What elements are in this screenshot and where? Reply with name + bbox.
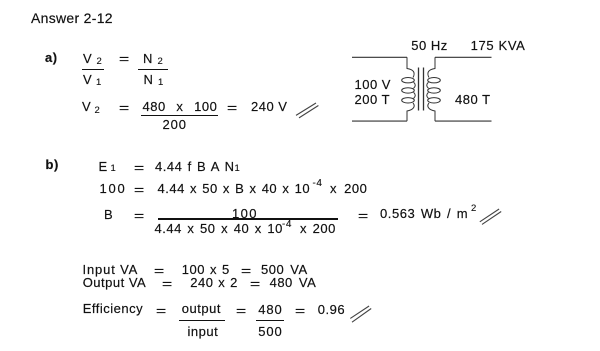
label a) xyxy=(45,51,58,64)
expression x 200 xyxy=(330,182,367,195)
node B xyxy=(104,208,113,221)
subscript 1 xyxy=(111,164,117,174)
tick mark after 0.563 Wb/m2 xyxy=(480,209,501,224)
value label 50 Hz xyxy=(411,39,447,52)
denominator 4.44 x 50 x 40 x 10 xyxy=(155,222,283,235)
wire bottom-left xyxy=(352,120,407,122)
node V2 numerator xyxy=(83,52,92,65)
equals sign xyxy=(119,52,130,65)
fraction bar N2/N1 xyxy=(138,69,168,70)
core line left xyxy=(418,68,420,111)
subscript 1 xyxy=(158,78,164,88)
tick mark after 240 V xyxy=(296,103,318,118)
subscript 2 xyxy=(158,57,164,67)
core line right xyxy=(423,68,425,111)
subscript 2 xyxy=(97,57,103,67)
fraction bar V2/V1 xyxy=(82,69,104,70)
fraction bar 480x100/200 xyxy=(141,115,218,117)
fraction bar big xyxy=(158,218,338,220)
secondary winding (480 T) xyxy=(427,57,441,121)
equals sign xyxy=(358,209,369,222)
node V1 denominator xyxy=(83,73,92,86)
V2 result row xyxy=(82,100,91,113)
result 0.563 Wb / m xyxy=(380,207,468,220)
fraction bar output/input xyxy=(179,320,225,322)
value label 480 T xyxy=(455,93,491,106)
node E1 xyxy=(99,160,108,173)
superscript -4 xyxy=(282,220,292,230)
result 240 V xyxy=(251,100,287,113)
expression 4.44 x 50 x B x 40 x 10 xyxy=(158,182,311,195)
equals sign xyxy=(119,101,130,114)
value 100 xyxy=(100,182,127,195)
Output VA row xyxy=(83,276,147,289)
Input VA row xyxy=(83,263,139,276)
equals sign xyxy=(227,101,238,114)
numerator 480 x 100 xyxy=(143,100,218,113)
superscript 2 xyxy=(471,204,477,214)
subscript 1 xyxy=(96,78,102,88)
Efficiency row xyxy=(83,302,143,315)
wire top-left xyxy=(352,56,407,58)
equals sign xyxy=(134,183,145,196)
numerator 100 xyxy=(232,207,258,220)
fraction bar 480/500 xyxy=(256,320,285,322)
value label 100 V xyxy=(355,78,391,91)
denominator 500 xyxy=(258,325,282,338)
denominator 200 xyxy=(163,118,187,131)
tick mark after 0.96 xyxy=(350,306,371,322)
formula 4.44 f B A N xyxy=(155,160,234,173)
equals sign xyxy=(134,161,145,174)
wire bottom-right xyxy=(435,120,492,122)
title "Answer 2-12" xyxy=(31,12,113,25)
label b) xyxy=(46,158,59,171)
denominator input xyxy=(188,325,219,338)
numerator 480 xyxy=(258,303,282,316)
primary winding (100 V / 200 T) xyxy=(402,57,416,121)
subscript 1 xyxy=(235,164,241,174)
wire top-right xyxy=(435,56,492,58)
superscript -4 xyxy=(313,179,323,189)
numerator output xyxy=(182,302,221,315)
denominator x 200 xyxy=(300,222,336,235)
value label 200 T xyxy=(355,93,391,106)
value label 175 KVA xyxy=(471,39,526,52)
node N2 numerator xyxy=(143,52,153,65)
equals sign xyxy=(134,209,145,222)
node N1 denominator xyxy=(144,73,154,86)
result 0.96 xyxy=(318,303,345,316)
subscript 2 xyxy=(95,106,101,116)
